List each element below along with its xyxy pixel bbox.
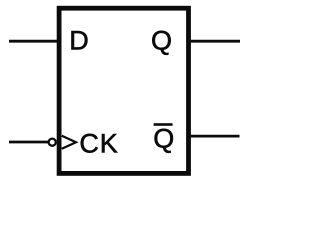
svg-text:Q: Q xyxy=(151,26,172,56)
svg-text:Q: Q xyxy=(153,123,174,153)
svg-text:D: D xyxy=(69,26,89,56)
svg-text:CK: CK xyxy=(79,128,118,158)
